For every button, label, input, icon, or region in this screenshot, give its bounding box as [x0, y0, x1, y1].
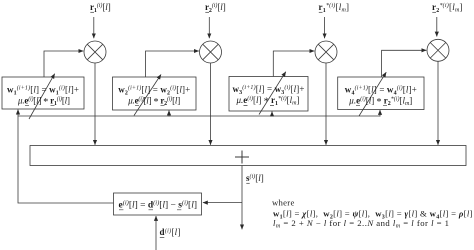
- summation box: [30, 146, 466, 166]
- error box: [114, 193, 202, 215]
- multiplier X4: [427, 39, 449, 61]
- adaptation arrow box W4: [359, 72, 386, 116]
- wire w2 output to multiplier 2: [146, 51, 199, 77]
- wire error feedback left riser: [18, 110, 114, 203]
- wire r1 input to multiplier 1: [93, 17, 95, 38]
- wire feedback bus horizontal: [18, 115, 380, 117]
- wire feedback arrow into box W2: [168, 111, 170, 117]
- wire multiplier 1 to summation: [94, 63, 96, 145]
- wire w4 output to multiplier 4: [382, 50, 427, 77]
- wire s branch to error box: [203, 202, 242, 204]
- wire r2* input to multiplier 4: [436, 17, 438, 37]
- wire feedback arrow into box W3: [271, 112, 273, 117]
- wire w3 output to multiplier 3: [273, 51, 314, 77]
- wire r2 input to multiplier 2: [208, 17, 210, 38]
- box W1 update: [2, 77, 84, 109]
- box W2 update: [113, 77, 197, 110]
- svg-text:lm = 2 + N − l for l = 2..N an: lm = 2 + N − l for l = 2..N and lm = l f…: [273, 218, 449, 230]
- box W4 update: [338, 77, 424, 110]
- wire multiplier 2 to summation: [210, 63, 212, 145]
- wire d input to error box: [155, 216, 157, 250]
- wire summation output s: [241, 166, 243, 230]
- wire multiplier 4 to summation: [437, 61, 439, 145]
- wire feedback arrow into box W4: [379, 110, 381, 117]
- svg-text:where: where: [272, 198, 294, 208]
- svg-text:r2*(i)[lm]: r2*(i)[lm]: [432, 2, 463, 14]
- multiplier X3: [315, 41, 337, 63]
- svg-text:d(i)[l]: d(i)[l]: [160, 227, 181, 237]
- label r2(i)[l]: [205, 2, 226, 14]
- adaptation arrow box W2: [134, 75, 161, 116]
- wire w1 output to multiplier 1: [44, 51, 83, 77]
- label s(i)[l]: [246, 173, 264, 183]
- label r1*(i)[lm]: [319, 2, 350, 14]
- underbars e and r in weight boxes: [25, 104, 387, 106]
- underbars e d s in error box: [119, 209, 181, 211]
- wire r1* input to multiplier 3: [324, 17, 326, 38]
- plus sign in summation box: [235, 151, 249, 164]
- wire multiplier 3 to summation: [325, 63, 327, 145]
- label d(i)[l]: [160, 227, 181, 237]
- adaptation arrow box W3: [259, 72, 286, 115]
- multiplier X1: [84, 41, 106, 63]
- box W3 update: [229, 77, 308, 112]
- label r2*(i)[lm]: [432, 2, 463, 14]
- svg-text:s(i)[l]: s(i)[l]: [246, 173, 264, 183]
- svg-text:r1*(i)[lm]: r1*(i)[lm]: [319, 2, 350, 14]
- multiplier X2: [200, 41, 222, 63]
- label r1(i)[l]: [90, 2, 111, 14]
- adaptation arrow box W1: [29, 74, 55, 119]
